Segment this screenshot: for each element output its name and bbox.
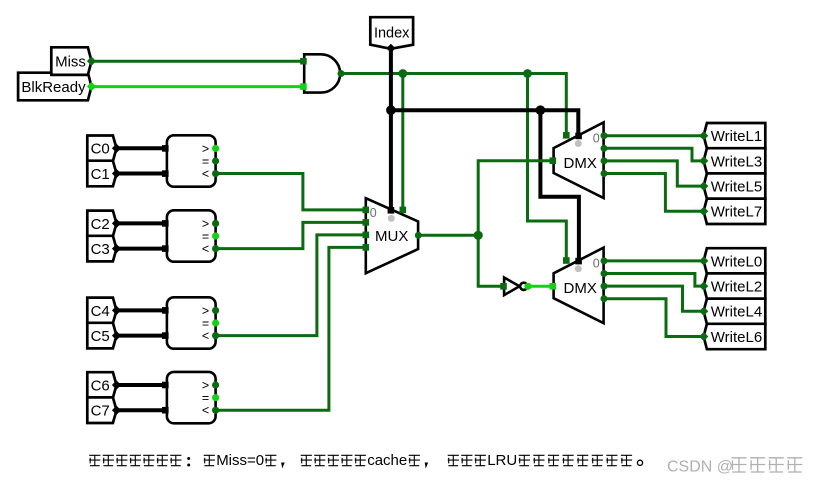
- svg-text:<: <: [202, 404, 209, 418]
- svg-text:BlkReady: BlkReady: [21, 79, 86, 96]
- svg-text:C6: C6: [91, 377, 110, 394]
- svg-text:C3: C3: [91, 241, 110, 258]
- svg-text:WriteL2: WriteL2: [711, 279, 762, 296]
- svg-text:DMX: DMX: [564, 155, 597, 172]
- svg-text:C1: C1: [91, 166, 110, 183]
- svg-text:C4: C4: [91, 303, 110, 320]
- svg-text:<: <: [202, 242, 209, 256]
- svg-text:0: 0: [370, 206, 377, 220]
- svg-text:Index: Index: [374, 26, 410, 42]
- svg-text:Miss: Miss: [55, 54, 86, 71]
- svg-text:<: <: [202, 329, 209, 343]
- svg-text:C2: C2: [91, 216, 110, 233]
- svg-text:0: 0: [593, 131, 600, 145]
- svg-text:cache: cache: [367, 452, 407, 469]
- svg-text:WriteL7: WriteL7: [711, 204, 762, 221]
- svg-text:WriteL5: WriteL5: [711, 179, 762, 196]
- svg-text:C5: C5: [91, 328, 110, 345]
- svg-text:WriteL4: WriteL4: [711, 304, 762, 321]
- svg-text:Miss=0: Miss=0: [216, 452, 264, 469]
- svg-text:DMX: DMX: [564, 280, 597, 297]
- svg-text:MUX: MUX: [375, 228, 408, 245]
- svg-text:0: 0: [593, 257, 600, 271]
- svg-text:<: <: [202, 167, 209, 181]
- svg-text:C0: C0: [91, 141, 110, 158]
- svg-text:C7: C7: [91, 403, 110, 420]
- svg-text:WriteL6: WriteL6: [711, 329, 762, 346]
- svg-text:LRU: LRU: [487, 452, 517, 469]
- svg-text:CSDN @: CSDN @: [667, 459, 733, 476]
- svg-text:WriteL3: WriteL3: [711, 153, 762, 170]
- svg-text:WriteL0: WriteL0: [711, 253, 762, 270]
- svg-text:WriteL1: WriteL1: [711, 128, 762, 145]
